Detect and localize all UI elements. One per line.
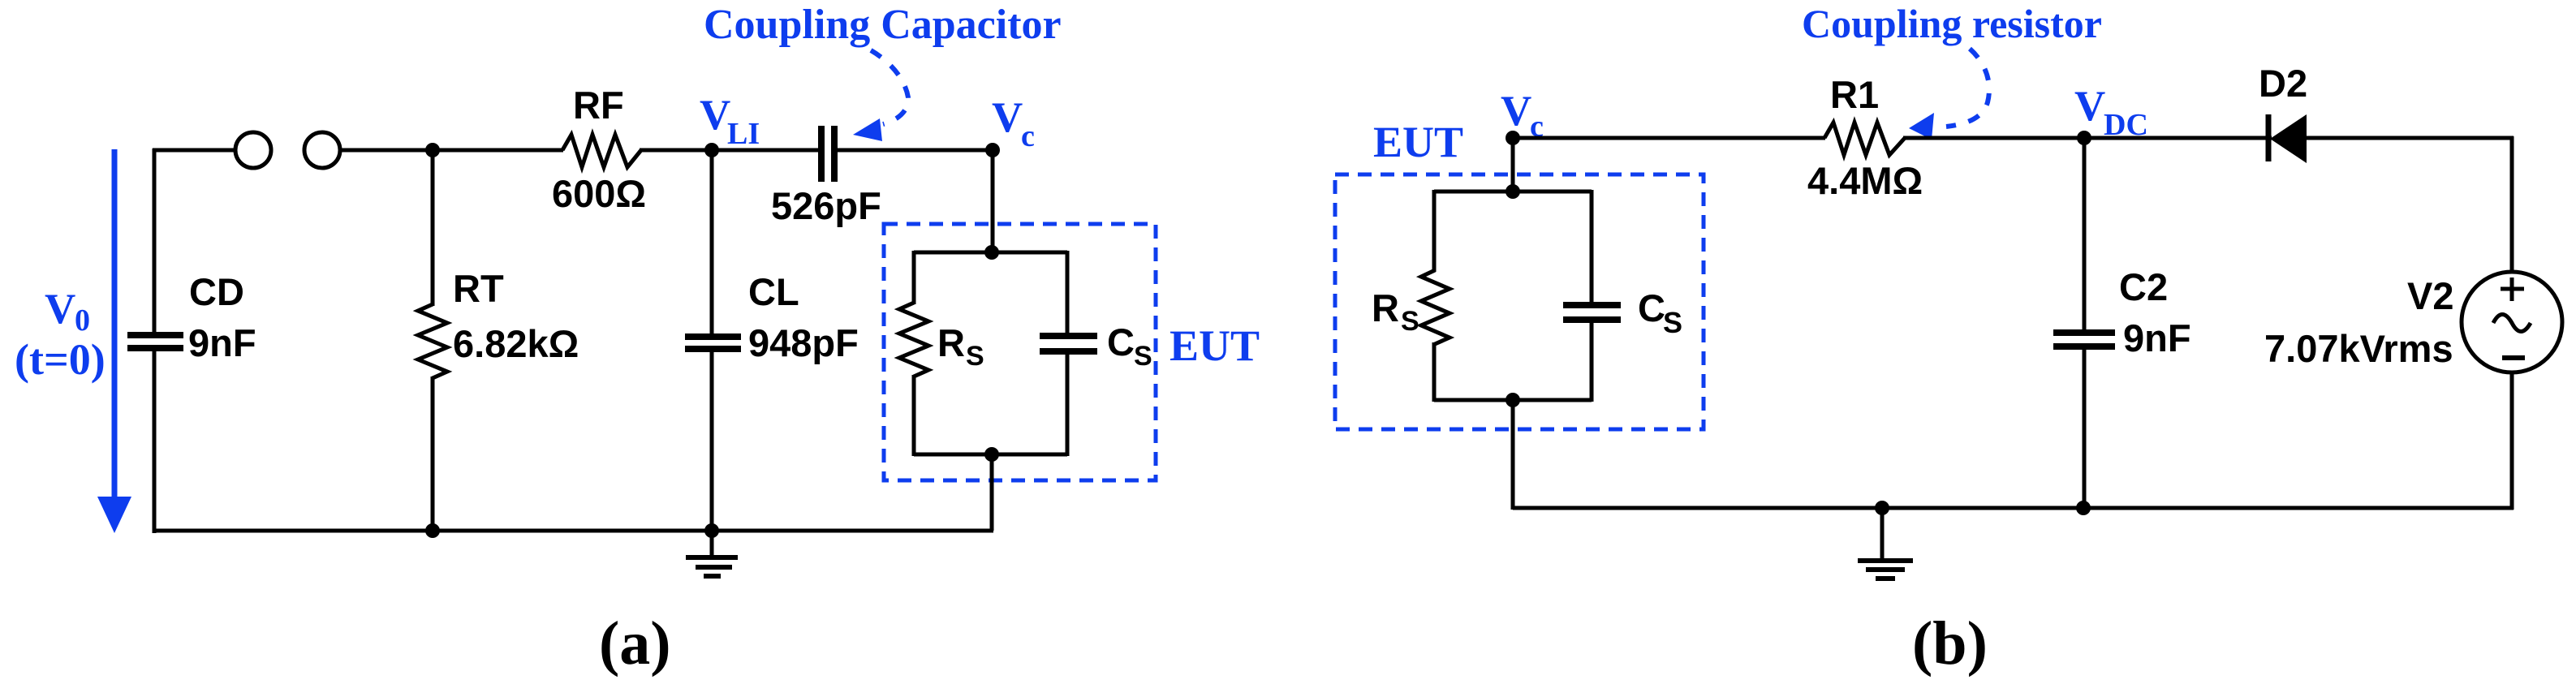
- wire Vc down b: [1511, 138, 1515, 193]
- svg-text:Coupling resistor: Coupling resistor: [1802, 1, 2102, 46]
- arrow coupling resistor dashed: [1909, 49, 1989, 140]
- node inner top b: [1506, 184, 1520, 199]
- wire RF to coupling cap: [640, 148, 819, 153]
- wire Cs bottom a: [1066, 354, 1070, 456]
- svg-text:V: V: [45, 286, 75, 333]
- wire EUT descend a: [990, 454, 994, 531]
- svg-text:600Ω: 600Ω: [552, 172, 646, 215]
- label Rs b: [1372, 286, 1419, 337]
- wire Vc down: [991, 150, 995, 254]
- wire top middle: [341, 148, 563, 153]
- wire Cs top a: [1066, 251, 1070, 333]
- wire inner bottom b: [1434, 398, 1592, 402]
- capacitor Cs b: [1563, 305, 1621, 320]
- source V2: [2462, 272, 2562, 372]
- arrow coupling capacitor dashed: [853, 50, 908, 141]
- diode D2: [2268, 114, 2307, 163]
- svg-text:LI: LI: [727, 117, 760, 151]
- svg-text:R: R: [937, 321, 965, 364]
- svg-text:V: V: [700, 92, 730, 139]
- wire CL to bottom: [710, 351, 714, 533]
- node junction RT: [425, 143, 440, 157]
- svg-text:948pF: 948pF: [748, 321, 859, 364]
- svg-text:S: S: [1134, 341, 1152, 372]
- resistor Rs b: [1421, 270, 1450, 344]
- label V0: [45, 286, 90, 338]
- svg-text:S: S: [966, 341, 984, 372]
- svg-text:526pF: 526pF: [771, 184, 881, 227]
- label Vc: [992, 94, 1035, 153]
- node bottom CL: [704, 523, 719, 538]
- wire Cs top b: [1590, 190, 1594, 303]
- capacitor CD: [127, 335, 183, 348]
- wire left vertical bottom: [153, 350, 157, 533]
- label Cs b: [1638, 286, 1682, 339]
- wire R1 to VDC: [1903, 136, 2086, 140]
- svg-text:S: S: [1663, 306, 1682, 339]
- node Vc b: [1506, 131, 1520, 145]
- node VDC: [2077, 131, 2091, 145]
- ground a: [686, 531, 738, 576]
- resistor RT: [418, 304, 447, 378]
- svg-text:RF: RF: [573, 84, 624, 127]
- svg-text:R1: R1: [1830, 73, 1879, 116]
- svg-text:CL: CL: [748, 270, 799, 313]
- svg-text:RT: RT: [453, 267, 504, 310]
- svg-text:C2: C2: [2119, 265, 2168, 308]
- svg-text:0: 0: [75, 303, 90, 338]
- wire EUT descend b: [1511, 400, 1515, 510]
- spark gap electrode right: [304, 132, 340, 168]
- svg-text:C: C: [1638, 286, 1665, 329]
- svg-text:(b): (b): [1912, 609, 1988, 678]
- node inner bottom a: [984, 447, 999, 462]
- resistor Rs a: [899, 303, 928, 376]
- capacitor CL: [685, 337, 741, 349]
- capacitor C2: [2053, 333, 2115, 346]
- svg-text:9nF: 9nF: [2123, 316, 2191, 359]
- svg-text:R: R: [1372, 286, 1399, 329]
- node inner bottom b: [1506, 393, 1520, 407]
- svg-text:4.4MΩ: 4.4MΩ: [1807, 159, 1923, 202]
- wire RT to bottom: [431, 376, 435, 533]
- wire Cs bottom b: [1590, 322, 1594, 402]
- svg-text:6.82kΩ: 6.82kΩ: [453, 322, 579, 365]
- wire VDC to diode: [2084, 136, 2272, 140]
- label VDC: [2074, 83, 2148, 142]
- bottom wire b: [1513, 506, 2514, 510]
- svg-text:9nF: 9nF: [188, 321, 256, 364]
- resistor RF: [562, 135, 641, 167]
- wire V2 down: [2510, 372, 2514, 510]
- wire Rs bottom b: [1432, 342, 1437, 402]
- capacitor Cs a: [1040, 336, 1097, 351]
- resistor R1: [1824, 123, 1905, 155]
- wire inner bottom a: [914, 453, 1067, 457]
- resistor RT branch wire: [431, 150, 435, 306]
- svg-text:C: C: [1107, 321, 1135, 364]
- wire C2 branch bottom: [2083, 348, 2087, 508]
- label Cs a: [1107, 321, 1152, 372]
- svg-text:7.07kVrms: 7.07kVrms: [2264, 327, 2453, 370]
- svg-text:(a): (a): [599, 609, 671, 678]
- svg-text:(t=0): (t=0): [15, 335, 106, 384]
- svg-text:S: S: [1401, 306, 1419, 337]
- wire top b left: [1513, 136, 1825, 140]
- wire top left: [153, 148, 235, 153]
- svg-text:V2: V2: [2407, 274, 2454, 317]
- V0 arrow: [97, 149, 131, 533]
- node VLI: [704, 143, 719, 157]
- wire inner top b: [1434, 190, 1592, 194]
- node inner top a: [984, 245, 999, 260]
- wire left vertical top: [153, 148, 157, 333]
- svg-text:c: c: [1021, 119, 1035, 153]
- svg-text:Coupling Capacitor: Coupling Capacitor: [704, 2, 1062, 48]
- spark gap electrode left: [235, 132, 271, 168]
- wire coupling cap to Vc: [837, 148, 994, 153]
- bottom wire a: [153, 529, 993, 533]
- svg-text:CD: CD: [189, 270, 244, 313]
- label Vc b: [1501, 88, 1544, 144]
- wire corner down to V2: [2510, 136, 2514, 273]
- capacitor coupling 526pF: [821, 126, 834, 182]
- node bottom ground b: [1875, 501, 1889, 515]
- wire Rs top b: [1432, 190, 1437, 272]
- svg-text:V: V: [1501, 88, 1531, 135]
- wire Rs bottom a: [912, 375, 916, 456]
- capacitor CL branch wire top: [710, 150, 714, 334]
- svg-text:EUT: EUT: [1373, 118, 1463, 166]
- label VLI: [700, 92, 760, 151]
- svg-text:V: V: [2074, 83, 2105, 130]
- label Rs a: [937, 321, 984, 372]
- svg-text:EUT: EUT: [1170, 321, 1260, 370]
- svg-text:D2: D2: [2259, 62, 2307, 105]
- ground b: [1858, 508, 1913, 579]
- EUT box a: [884, 224, 1156, 480]
- node Vc: [985, 143, 1000, 157]
- wire inner top a: [914, 251, 1067, 255]
- node bottom C2: [2076, 501, 2091, 515]
- EUT box b: [1335, 174, 1704, 429]
- wire diode to corner: [2305, 136, 2514, 140]
- svg-text:V: V: [992, 94, 1023, 141]
- wire Rs top a: [912, 251, 916, 304]
- wire C2 branch top: [2083, 138, 2087, 331]
- node bottom RT: [425, 523, 440, 538]
